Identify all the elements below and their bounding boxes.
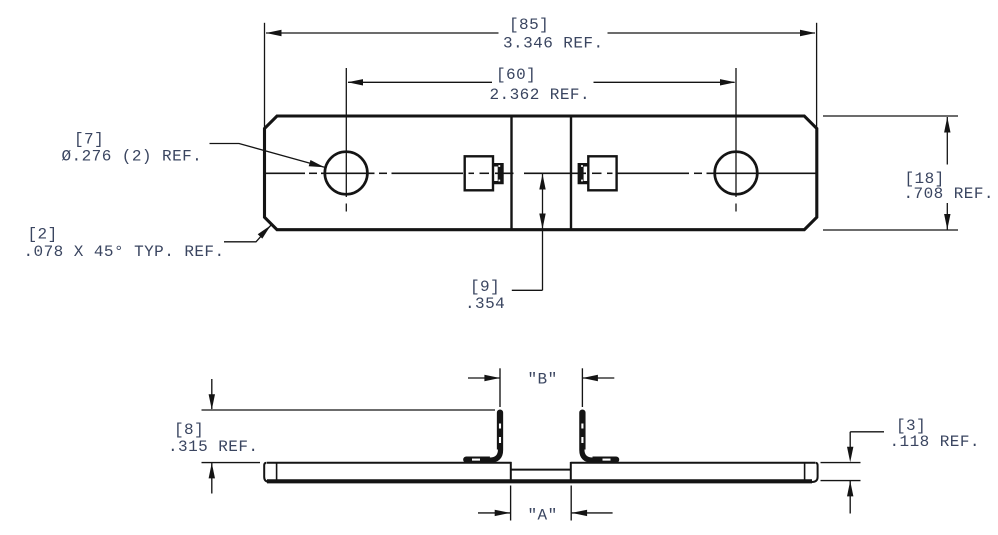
dimension [18] extension lines	[823, 116, 958, 230]
dimension [8] arrowheads	[209, 394, 215, 478]
dimension A arrow lines	[478, 512, 613, 514]
side view recess step right	[570, 462, 572, 483]
side view tab left	[466, 413, 500, 460]
svg-text:2.362 REF.: 2.362 REF.	[490, 86, 591, 104]
side view bar right end cap	[812, 463, 818, 482]
svg-text:[2]: [2]	[28, 226, 58, 244]
side view recess step left	[510, 462, 512, 483]
svg-text:[85]: [85]	[509, 16, 549, 34]
plate outline top view	[265, 116, 817, 230]
side view bar top edge left	[267, 462, 512, 464]
svg-text:.708 REF.: .708 REF.	[904, 185, 994, 203]
svg-text:Ø.276 (2) REF.: Ø.276 (2) REF.	[62, 148, 203, 166]
hole right vertical centerline	[735, 68, 737, 212]
leader line [2]	[224, 225, 271, 242]
dimension [85] extension lines	[265, 23, 817, 128]
svg-text:[8]: [8]	[174, 421, 204, 439]
svg-text:.078 X 45° TYP. REF.: .078 X 45° TYP. REF.	[24, 243, 225, 261]
dimension [3] arrowheads	[847, 447, 853, 497]
dimension [3] extension lines	[821, 463, 861, 481]
tab left top view	[465, 156, 504, 190]
leader line [7]	[210, 144, 325, 168]
dimension [8] extension lines	[202, 410, 496, 463]
side view bar left end cap	[264, 463, 270, 482]
dimension [85] arrowheads	[266, 30, 816, 36]
dimension A arrowheads	[495, 510, 587, 516]
dimension [85] line	[266, 32, 815, 34]
svg-text:.354: .354	[465, 295, 505, 313]
side view bar bottom thick edge	[267, 479, 812, 483]
svg-text:"A": "A"	[528, 507, 558, 525]
svg-text:3.346 REF.: 3.346 REF.	[503, 35, 604, 53]
horizontal centerline	[264, 172, 817, 174]
svg-text:.118 REF.: .118 REF.	[890, 433, 980, 451]
hole right	[715, 152, 758, 195]
side view recess top line	[511, 469, 571, 471]
svg-text:"B": "B"	[528, 371, 558, 389]
dimension B extension lines	[500, 368, 582, 407]
hole left vertical centerline	[345, 68, 347, 212]
dimension [60] line	[348, 81, 735, 83]
side view bar top edge right	[571, 462, 816, 464]
hole left	[325, 152, 368, 195]
leader [7] arrowhead	[309, 160, 325, 167]
svg-text:[60]: [60]	[496, 66, 536, 84]
dimension B arrowheads	[484, 375, 598, 381]
svg-text:.315 REF.: .315 REF.	[168, 438, 258, 456]
dimension [18] arrowheads	[944, 117, 950, 230]
dimension [3] leader and arrow lines	[850, 432, 884, 514]
side view bar end tangent line left	[276, 464, 278, 483]
leader [2] arrowhead	[258, 225, 271, 238]
side view tab right	[582, 413, 616, 460]
dimension [18] line	[946, 117, 948, 230]
side view bar end tangent line right	[804, 464, 806, 483]
dimension A extension lines	[511, 486, 572, 521]
dimension [60] arrowheads	[348, 79, 736, 85]
tab right top view	[578, 156, 617, 190]
dimension [8] arrow lines	[211, 379, 213, 494]
wire middle vertical right (tab section line)	[570, 116, 572, 231]
dimension [9] arrow line	[512, 174, 543, 290]
svg-text:[7]: [7]	[74, 131, 104, 149]
dimension B arrow lines	[468, 377, 614, 379]
dimension [9] arrowheads	[539, 174, 545, 229]
wire middle vertical left (tab section line)	[510, 116, 512, 231]
svg-text:[9]: [9]	[470, 278, 500, 296]
